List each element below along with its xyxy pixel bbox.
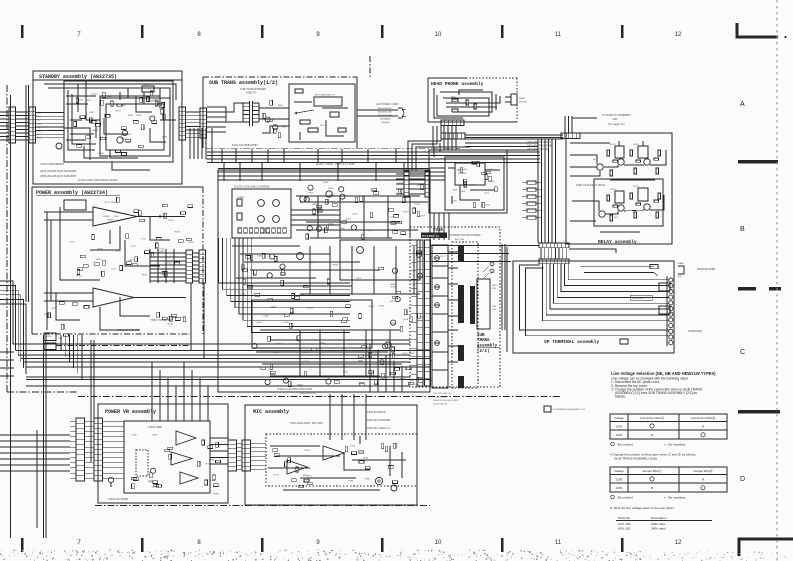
chain line vertical above sub trans xyxy=(369,56,371,77)
connector CN402 headphone lower xyxy=(441,133,465,139)
svg-text:D720: D720 xyxy=(131,246,137,248)
svg-text:Q160: Q160 xyxy=(120,105,126,107)
volume pot M2 xyxy=(273,200,280,207)
svg-text:D113: D113 xyxy=(159,248,165,250)
connection wire table xyxy=(610,414,727,439)
svg-text:IC151 NJM78M05FA: IC151 NJM78M05FA xyxy=(40,162,64,166)
protection sub-box bridge xyxy=(455,163,485,185)
svg-text:C996: C996 xyxy=(365,479,371,481)
wire input rail R xyxy=(44,292,93,294)
svg-text:Q616: Q616 xyxy=(257,322,263,324)
op-amp IC941a xyxy=(287,460,307,474)
svg-text:RB-405B: RB-405B xyxy=(458,173,467,175)
svg-text:SPEAKER WIRE: SPEAKER WIRE xyxy=(697,268,716,271)
svg-text:Q452-456 :2SD438: Q452-456 :2SD438 xyxy=(527,148,548,151)
svg-text:R290: R290 xyxy=(247,258,253,260)
svg-text:C795: C795 xyxy=(141,238,147,240)
assembly box STANDBY (AW22735) xyxy=(33,71,182,184)
transistor Q454 xyxy=(599,211,605,217)
svg-text:R389: R389 xyxy=(359,452,365,454)
wire bracket speaker A/B xyxy=(580,266,654,268)
svg-text:Q127: Q127 xyxy=(245,299,251,301)
speaker terminal strip xyxy=(669,278,673,282)
wire drops power connectors to rails xyxy=(190,283,192,351)
svg-text:D784: D784 xyxy=(162,136,168,138)
resistor stack relay feed R461-R466 xyxy=(527,181,536,184)
assembly box HEAD PHONE xyxy=(428,77,466,79)
assembly box MIC xyxy=(245,405,417,505)
svg-text:× : Be needless: × : Be needless xyxy=(664,495,686,499)
svg-text:STBY: STBY xyxy=(37,138,43,140)
wire bus fuse area verticals xyxy=(501,244,503,330)
volume pot M4 xyxy=(273,216,280,223)
svg-text:HEAD: HEAD xyxy=(519,97,525,100)
svg-text:AXX-193: AXX-193 xyxy=(618,522,631,526)
transistor Q453 xyxy=(644,159,650,165)
wire trunk powervr feed pair xyxy=(90,340,92,462)
assembly box POWER (AW22734) xyxy=(32,186,203,188)
inner box power switch unit xyxy=(289,84,355,142)
headphone jack J401 xyxy=(511,94,517,105)
svg-text:Voltage: Voltage xyxy=(614,416,624,420)
svg-text:D101-102 RDB-00580: D101-102 RDB-00580 xyxy=(232,143,258,147)
wire bus relay to SP connector xyxy=(540,248,542,259)
svg-text:C479: C479 xyxy=(151,487,157,489)
scanner noise band bottom xyxy=(210,551,211,552)
svg-text:: Be needed: : Be needed xyxy=(616,442,633,446)
svg-text:R508: R508 xyxy=(111,202,117,204)
wire drops sub trans to rails xyxy=(211,149,213,163)
svg-text:R959: R959 xyxy=(390,323,396,325)
connector J450 display xyxy=(561,133,580,139)
svg-text:IC941 RC4560P: IC941 RC4560P xyxy=(366,410,386,414)
op-amp IC941b xyxy=(323,446,344,460)
connector CN601 left xyxy=(76,418,85,481)
svg-text:1454-1458 (+B): 1454-1458 (+B) xyxy=(433,404,447,406)
svg-text:C240: C240 xyxy=(390,216,396,218)
wire bus page-left into STANDBY xyxy=(0,111,9,113)
svg-text:R196: R196 xyxy=(76,275,82,277)
protection wiring xyxy=(448,167,455,169)
svg-text:D720: D720 xyxy=(274,474,280,476)
transistor Q1204 xyxy=(297,253,304,260)
inner box IC601 AMP xyxy=(124,421,210,493)
mic components xyxy=(274,454,279,457)
svg-text:R391: R391 xyxy=(89,112,95,114)
mic internal wires xyxy=(270,445,320,447)
svg-text:R471: R471 xyxy=(451,97,456,99)
standby regulator components xyxy=(162,102,165,107)
wire stub fuse to relay vertical xyxy=(499,244,501,250)
svg-text:(To page 3c): (To page 3c) xyxy=(608,122,625,126)
svg-text:07A/62: 07A/62 xyxy=(103,215,111,218)
wire relay feed mid horizontal xyxy=(430,253,509,255)
svg-text:220V: 220V xyxy=(616,478,623,482)
svg-text:PHONE: PHONE xyxy=(519,102,527,104)
power amp L components xyxy=(80,255,85,258)
svg-text:×: × xyxy=(651,433,654,438)
transformer T101 secondary winding xyxy=(253,102,259,104)
svg-text:R368: R368 xyxy=(333,265,339,267)
svg-text:SUB: SUB xyxy=(477,334,485,338)
wire power misc verticals xyxy=(149,249,151,283)
jumper wire table xyxy=(610,467,727,492)
power transformer primary bar xyxy=(458,246,464,261)
volume control box IC1201 xyxy=(232,189,291,238)
svg-text:(DEMAND): (DEMAND) xyxy=(380,118,391,121)
wire bus protection feed xyxy=(396,173,404,175)
chain line lower boundary xyxy=(78,396,560,398)
svg-text:4-16 OHM: 4-16 OHM xyxy=(632,297,643,300)
svg-text:SUB TRANSFORMER: SUB TRANSFORMER xyxy=(240,87,266,91)
svg-text:(SUB TRANS ASSEMBLY(1/2)).: (SUB TRANS ASSEMBLY(1/2)). xyxy=(614,457,658,461)
wire bus relay horizontals xyxy=(465,142,538,144)
svg-text:Jumper WireⒹ: Jumper WireⒹ xyxy=(693,468,712,473)
svg-text:TRANS: TRANS xyxy=(477,339,490,343)
assembly box RELAY xyxy=(566,133,672,244)
svg-text:220V: 220V xyxy=(616,425,623,429)
svg-text:IC101 07A/62-20P: IC101 07A/62-20P xyxy=(117,328,140,332)
svg-text:FUSE: FUSE xyxy=(433,229,444,233)
wire bus STANDBY to SUB TRANS xyxy=(186,111,201,113)
svg-text:D510: D510 xyxy=(419,317,425,319)
wire pair left vertical xyxy=(25,85,27,302)
jumper wire C xyxy=(490,262,494,266)
svg-text:C619: C619 xyxy=(69,242,75,244)
svg-text:GND1: GND1 xyxy=(492,285,498,287)
svg-text:×: × xyxy=(651,486,654,491)
svg-text:Q833: Q833 xyxy=(363,457,369,459)
wire taps transformer secondary xyxy=(448,251,458,253)
wire bus headphone to relay rail xyxy=(465,134,563,136)
svg-text:C846: C846 xyxy=(452,189,458,191)
registration corner mark top-right xyxy=(737,23,778,37)
svg-text:D307: D307 xyxy=(167,262,173,264)
wire bus to display assembly xyxy=(564,116,566,133)
svg-text:SUB TRANS assembly(1/2): SUB TRANS assembly(1/2) xyxy=(209,80,278,86)
svg-text:R869: R869 xyxy=(107,219,113,221)
svg-text:AC2: AC2 xyxy=(37,115,41,118)
wire risers from bus to main box xyxy=(369,344,371,392)
wire output rail R xyxy=(134,297,186,299)
svg-text:A(M)LT27: A(M)LT27 xyxy=(246,92,257,95)
power amp R components xyxy=(157,312,160,317)
svg-text:PUB/PUS 1453-1456 (GND): PUB/PUS 1453-1456 (GND) xyxy=(433,400,459,402)
wire bus into powervr from left xyxy=(0,434,70,436)
svg-text:Q120: Q120 xyxy=(92,93,98,95)
wire drops rails into main box xyxy=(223,163,225,181)
svg-text:D113: D113 xyxy=(103,98,109,100)
svg-text:B: B xyxy=(740,226,745,233)
svg-text:ADG4246-HE: ADG4246-HE xyxy=(378,114,392,117)
chain line mid horizontal xyxy=(206,158,385,160)
wire feed relay connector from main xyxy=(430,245,539,247)
svg-text:D: D xyxy=(740,476,745,483)
svg-text:'THRU' POWER AMP: 'THRU' POWER AMP xyxy=(150,319,173,322)
resistor R471 muting xyxy=(452,99,458,102)
svg-text:GND: GND xyxy=(492,306,497,308)
assembly box POWER VR xyxy=(98,404,228,503)
wire bus main upper rails xyxy=(296,195,420,197)
connector CN941 xyxy=(228,440,237,471)
svg-text:Voltage: Voltage xyxy=(614,469,624,473)
svg-text:Q427: Q427 xyxy=(346,219,352,221)
svg-text:POWER VR assembly: POWER VR assembly xyxy=(105,409,156,415)
svg-text:J450: J450 xyxy=(612,117,618,121)
protection components xyxy=(482,172,487,175)
connector CN451 relay bottom upper xyxy=(539,243,569,248)
svg-text:essembly: essembly xyxy=(422,234,440,239)
svg-text:AC POWER CORD: AC POWER CORD xyxy=(376,102,399,106)
connector CN106 power bottom xyxy=(44,333,56,341)
chain line under bottom assemblies xyxy=(95,505,430,507)
svg-text:12: 12 xyxy=(675,540,682,546)
svg-text:C: C xyxy=(491,262,493,266)
svg-text:C495: C495 xyxy=(283,322,289,324)
transistor Q152 xyxy=(56,143,62,149)
svg-text:Q334: Q334 xyxy=(403,319,409,321)
svg-text:RL453: RL453 xyxy=(610,189,616,191)
label SPEAKER WIRE xyxy=(678,266,684,274)
svg-text:R569: R569 xyxy=(188,242,194,244)
svg-text:AC1: AC1 xyxy=(37,112,41,115)
connector CN105 power right lower xyxy=(199,250,206,283)
wire bus main box top horizontals xyxy=(218,168,430,170)
page edge dotted line right xyxy=(776,0,778,561)
main inner box mid xyxy=(252,300,372,348)
svg-text:×: × xyxy=(702,424,705,429)
wire fan connector to speaker terminals xyxy=(568,264,668,280)
terminal block lower xyxy=(659,306,670,314)
svg-text:R196: R196 xyxy=(348,481,354,483)
svg-text:Connection WireⒶ: Connection WireⒶ xyxy=(640,415,664,420)
svg-text:C934: C934 xyxy=(263,316,269,318)
wire stubs mic connectors xyxy=(237,442,243,444)
svg-text:D941,942 2SD235B: D941,942 2SD235B xyxy=(366,418,390,422)
svg-text:D352: D352 xyxy=(46,336,52,338)
svg-text:GND1-CASE RELAY DRIVE: GND1-CASE RELAY DRIVE xyxy=(576,184,605,187)
standby inner loop rect xyxy=(106,104,164,150)
wire vertical feed L xyxy=(46,212,48,330)
wire bus relay feed verticals xyxy=(537,139,539,243)
transistor Q456 xyxy=(644,204,650,210)
svg-text:C420: C420 xyxy=(452,201,458,203)
chain line power inner bottom xyxy=(56,345,190,347)
svg-text:R407: R407 xyxy=(121,139,127,141)
svg-text:D321: D321 xyxy=(356,278,362,280)
svg-text:follows.: follows. xyxy=(615,395,626,399)
svg-text:Parts No.: Parts No. xyxy=(618,516,631,520)
svg-text:Q660: Q660 xyxy=(417,184,423,186)
standby stub wires xyxy=(66,95,96,97)
op-amp IC601b xyxy=(171,452,192,465)
connector CN942 xyxy=(242,440,251,471)
svg-text:1452-1455 (-B): 1452-1455 (-B) xyxy=(433,397,447,399)
mic dotted signal box xyxy=(266,434,417,486)
zone divider dash B-C xyxy=(738,287,756,290)
svg-text:C941,002 +E52x-x2: C941,002 +E52x-x2 xyxy=(366,426,390,430)
svg-text:(+B): (+B) xyxy=(492,288,496,290)
svg-text:D494: D494 xyxy=(136,115,142,117)
svg-text:D549: D549 xyxy=(209,480,215,482)
svg-text:Q819: Q819 xyxy=(379,305,385,307)
connector CN602 left xyxy=(94,418,103,481)
registration corner mark bottom-right xyxy=(739,539,793,556)
svg-text:C: C xyxy=(740,349,745,356)
svg-text:C585: C585 xyxy=(485,204,491,206)
svg-text:Description: Description xyxy=(651,516,667,520)
svg-text:C690: C690 xyxy=(132,435,138,437)
svg-text:AC POWER SWITCH: AC POWER SWITCH xyxy=(315,94,335,97)
wire bus left entry lower xyxy=(0,351,14,353)
svg-text:A/AHE: A/AHE xyxy=(678,262,685,265)
svg-text:IC941,D941,D942 : MIC AMP: IC941,D941,D942 : MIC AMP xyxy=(290,422,323,425)
svg-text:D854: D854 xyxy=(374,384,380,386)
relay RL451 coil xyxy=(615,146,624,158)
fuse holder column xyxy=(432,245,448,388)
wire bends headphone to protection connector xyxy=(408,126,441,171)
volume control pin row xyxy=(238,228,242,233)
wire bus left entry mid bends xyxy=(0,281,13,344)
op-amp IC101b power amp R xyxy=(93,288,134,307)
svg-text:240V label: 240V label xyxy=(651,527,666,531)
turntable gnd box xyxy=(544,406,551,412)
svg-text:C269: C269 xyxy=(411,284,417,286)
svg-text:D577: D577 xyxy=(153,99,159,101)
wire cascade POWER to MAIN xyxy=(219,238,351,283)
mic jack J942 xyxy=(391,485,397,491)
wire bus powervr to mic xyxy=(210,437,228,439)
connector CN501 main board tall xyxy=(417,240,423,386)
wire drops bus to MIC xyxy=(329,394,331,440)
svg-text:D606: D606 xyxy=(409,353,415,355)
svg-text:R326: R326 xyxy=(391,287,397,289)
assembly sub-box speaker protection xyxy=(429,150,507,213)
chain line sub trans bottom extension xyxy=(206,147,460,149)
volume resistors xyxy=(237,199,242,206)
transistor Q1203 xyxy=(357,247,364,254)
svg-text:HEAD PHONE assembly: HEAD PHONE assembly xyxy=(431,81,484,87)
ruler tick marks top xyxy=(21,25,24,38)
transistor Q451 xyxy=(597,164,603,170)
relay RL151 xyxy=(142,86,154,92)
svg-text:D165: D165 xyxy=(148,481,154,483)
transistor Q452 xyxy=(618,159,624,165)
svg-text:Q152 2SA950 Q156 M21503: Q152 2SA950 Q156 M2150382 xyxy=(40,169,77,173)
svg-text:R678: R678 xyxy=(328,188,334,190)
svg-text:A TURNTABLE SIGN (EARTH) LUG: A TURNTABLE SIGN (EARTH) LUG xyxy=(553,408,586,411)
sub trans secondary components xyxy=(268,119,273,122)
relay inner box xyxy=(594,179,663,226)
svg-text:R855: R855 xyxy=(303,475,309,477)
svg-text:D555: D555 xyxy=(121,135,127,137)
svg-text:POWER TRANSFORMER: POWER TRANSFORMER xyxy=(450,233,481,237)
AC power cord lines xyxy=(357,109,398,111)
wire bus transformer to switch xyxy=(259,107,289,109)
capacitor C472 xyxy=(474,104,477,109)
svg-text:IC601 AMP: IC601 AMP xyxy=(148,425,162,429)
AC plug symbol xyxy=(398,108,404,118)
svg-text:R393: R393 xyxy=(175,232,181,234)
wire power loop xyxy=(60,207,100,280)
wire bus into protection xyxy=(430,167,445,169)
power switch inner components xyxy=(295,89,303,93)
svg-text:SURROUND: SURROUND xyxy=(688,330,702,333)
wire surround pair xyxy=(520,265,669,330)
svg-text:R688: R688 xyxy=(214,494,220,496)
volume pot M1 xyxy=(258,200,265,207)
connector CN456 protection inner xyxy=(425,171,430,197)
op-amp IC101a power amp L xyxy=(93,207,137,226)
svg-text:A(L)T480: A(L)T480 xyxy=(455,238,465,241)
svg-text:STANDBY assembly (AW22735): STANDBY assembly (AW22735) xyxy=(39,74,117,80)
svg-text:D: D xyxy=(491,269,493,273)
sub trans 2/2 winding box xyxy=(477,279,490,329)
svg-text:ASSEMBLY [1/2] from SUB TRANS: ASSEMBLY [1/2] from SUB TRANS ASSEMBLY [… xyxy=(615,391,697,395)
main assembly component field xyxy=(306,234,309,239)
ruler tick marks bottom xyxy=(21,538,24,552)
svg-text:Q376: Q376 xyxy=(51,308,57,310)
svg-text:AXX-192: AXX-192 xyxy=(618,527,631,531)
svg-text:R324: R324 xyxy=(128,115,134,117)
svg-text:R676: R676 xyxy=(142,275,148,277)
svg-text:Q599: Q599 xyxy=(114,212,120,214)
relay RL452 coil xyxy=(638,146,648,158)
svg-text:GND: GND xyxy=(37,123,42,125)
svg-text:(IC151,Q152,Q154 REGULATOR): (IC151,Q152,Q154 REGULATOR) xyxy=(78,178,118,182)
main internal wiring xyxy=(232,245,300,247)
wire stubs main connector xyxy=(411,244,417,246)
svg-text:R965: R965 xyxy=(390,284,396,286)
power vr components xyxy=(168,447,173,450)
svg-text:C160: C160 xyxy=(350,446,356,448)
op-amp IC601c xyxy=(180,472,198,484)
svg-text:R530: R530 xyxy=(168,220,174,222)
wire bus STANDBY internal rails xyxy=(36,112,65,114)
capacitor C471 xyxy=(466,100,469,105)
svg-text:R337: R337 xyxy=(116,110,122,112)
switch S101 AC POWER SWITCH xyxy=(314,97,342,106)
svg-text:IC1201 VOLUME CONTROL: IC1201 VOLUME CONTROL xyxy=(234,185,271,189)
headphone internal wiring loop xyxy=(437,95,489,116)
fuse F104 xyxy=(435,341,440,346)
svg-text:C834: C834 xyxy=(78,100,84,102)
svg-text:R845: R845 xyxy=(209,460,215,462)
wire bends below POWER cascade xyxy=(60,335,62,351)
svg-text:12: 12 xyxy=(675,32,682,38)
svg-text:Q741: Q741 xyxy=(343,371,349,373)
inner shield box STANDBY xyxy=(64,81,173,162)
svg-text:TO DISPLAY ASSEMBLY: TO DISPLAY ASSEMBLY xyxy=(602,113,632,117)
resistor R472 muting xyxy=(452,109,458,112)
svg-text:THERM: THERM xyxy=(238,197,245,199)
zone divider dash C-D xyxy=(738,410,780,413)
svg-text:ADG4244-HE: ADG4244-HE xyxy=(378,107,392,110)
relay capacitors xyxy=(613,160,618,162)
svg-text:R907: R907 xyxy=(308,192,314,194)
svg-text:D857: D857 xyxy=(420,216,426,218)
svg-text:RL454: RL454 xyxy=(633,186,639,188)
note legend 1 xyxy=(611,442,615,446)
thermal fuse xyxy=(300,120,310,124)
headphone extra wires xyxy=(434,88,463,118)
svg-text:Q652: Q652 xyxy=(128,260,134,262)
connector CN151 left outer xyxy=(9,107,16,143)
svg-text:200V label: 200V label xyxy=(651,522,666,526)
connector CN455 protection left xyxy=(404,171,409,197)
svg-text:R131: R131 xyxy=(105,202,111,204)
svg-text:Connection WireⒷ: Connection WireⒷ xyxy=(691,415,715,420)
